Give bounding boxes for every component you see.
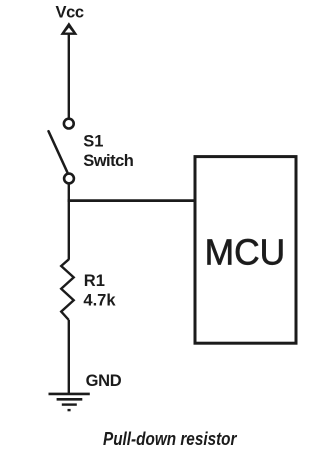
- wire from Vcc symbol to switch terminal: [68, 35, 70, 119]
- ground symbol: [49, 394, 90, 410]
- switch S1 bottom terminal (circle): [64, 174, 74, 184]
- power symbol Vcc (open triangle arrow): [60, 22, 77, 35]
- svg-text:Switch: Switch: [83, 152, 134, 170]
- switch S1 top terminal (circle): [64, 119, 74, 129]
- svg-text:Vcc: Vcc: [56, 4, 84, 22]
- svg-text:4.7k: 4.7k: [83, 291, 116, 309]
- MCU box U1: [195, 157, 296, 344]
- wire from resistor to ground: [68, 320, 70, 394]
- wire from switch bottom terminal to node: [68, 184, 70, 260]
- svg-text:Pull-down resistor: Pull-down resistor: [103, 429, 237, 449]
- wire node to MCU: [68, 199, 195, 202]
- switch S1 lever (open): [49, 131, 68, 172]
- svg-text:R1: R1: [84, 272, 105, 290]
- svg-text:S1: S1: [83, 132, 103, 150]
- resistor R1 (zigzag): [61, 259, 73, 320]
- svg-text:GND: GND: [86, 372, 122, 390]
- svg-text:MCU: MCU: [205, 231, 286, 272]
